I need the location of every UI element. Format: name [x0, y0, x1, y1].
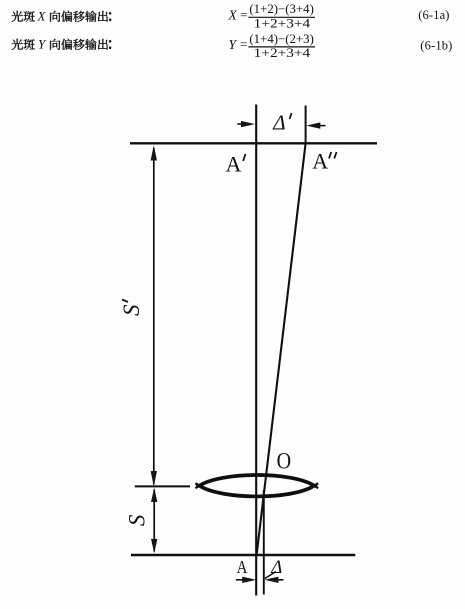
extension line above image plane at A'': [305, 106, 307, 144]
barb stroke on bottom right arrow: [265, 572, 276, 579]
displaced ray from A to A'': [257, 143, 306, 555]
svg-text:=: =: [240, 7, 247, 22]
svg-text:Y: Y: [229, 37, 238, 52]
svg-text:=: =: [240, 36, 247, 51]
svg-text:X: X: [37, 9, 47, 24]
object plane (bottom horizontal line): [131, 554, 355, 557]
image plane (top horizontal line): [130, 142, 377, 144]
dimension arrow left of Δ (bottom): [236, 579, 246, 581]
svg-text:(1+4)−(2+3): (1+4)−(2+3): [249, 32, 314, 46]
svg-text:S: S: [125, 514, 150, 526]
svg-text:1+2+3+4: 1+2+3+4: [254, 46, 311, 60]
lens plane reference line: [135, 485, 190, 487]
text line 2: 光斑 Y 向偏移输出：: [12, 39, 111, 50]
label S (rotated): [125, 514, 150, 526]
dimension arrow left of Δ': [237, 123, 247, 125]
equation (6-1a) fraction bar: [248, 16, 315, 18]
svg-text:A: A: [237, 557, 248, 577]
dimension line S with end arrows: [153, 490, 155, 552]
extension line for Δ below object plane: [263, 490, 265, 595]
svg-text:O: O: [277, 448, 292, 473]
svg-text:1+2+3+4: 1+2+3+4: [254, 17, 311, 31]
dimension arrow right of Δ (bottom): [275, 579, 284, 581]
svg-text:A: A: [312, 149, 328, 174]
optical axis (vertical line A to A'): [255, 105, 257, 596]
svg-text:X: X: [228, 7, 238, 22]
label S' (rotated): [119, 300, 144, 317]
text line 1: 光斑 X 向偏移输出：: [12, 11, 111, 22]
svg-text:Y: Y: [38, 37, 47, 52]
equation (6-1b) fraction bar: [248, 46, 315, 48]
dimension arrow right of Δ': [316, 125, 326, 127]
lens (biconvex): [199, 475, 314, 496]
svg-text:A: A: [226, 152, 242, 177]
svg-text:(1+2)−(3+4): (1+2)−(3+4): [249, 2, 314, 16]
svg-text:Δ: Δ: [272, 110, 285, 134]
svg-text:Δ: Δ: [270, 557, 282, 578]
svg-text:S: S: [119, 304, 144, 316]
svg-text:(6-1a): (6-1a): [418, 8, 449, 22]
svg-text:(6-1b): (6-1b): [420, 39, 452, 53]
dimension line S' with end arrows: [153, 148, 155, 485]
